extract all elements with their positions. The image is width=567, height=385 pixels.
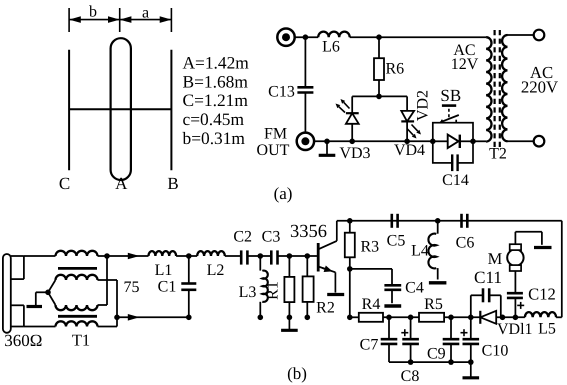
transformer T2 core (495, 30, 500, 148)
label C8 (401, 368, 420, 385)
svg-text:(a): (a) (274, 184, 293, 203)
label C3 (262, 229, 281, 246)
svg-text:12V: 12V (451, 56, 479, 73)
node R3 top (347, 218, 353, 224)
wire R3 node down (349, 269, 351, 317)
svg-text:C3: C3 (262, 229, 281, 246)
label L1 (155, 262, 173, 279)
inductor L1 (149, 251, 177, 256)
wire R4 to R5 (383, 316, 419, 318)
dimension ticks (69, 8, 171, 32)
node C8 top (408, 315, 414, 321)
T1 winding 4 (24, 317, 117, 326)
capacitor C13 (297, 37, 313, 133)
node C11 right (500, 315, 506, 321)
node C9 bottom (448, 359, 454, 365)
node R1 top (287, 253, 293, 259)
svg-text:A: A (115, 174, 128, 193)
ground below emitter (327, 293, 344, 296)
transformer T2 primary (486, 37, 491, 141)
T1 tap to ground (27, 292, 49, 306)
capacitor C5 (392, 214, 398, 228)
transformer T2 secondary (502, 35, 507, 141)
label L4 (411, 243, 429, 260)
wire L6 to T2 top (350, 36, 486, 38)
antenna element B line (170, 50, 172, 170)
label C4 (405, 280, 424, 297)
node L3 bottom (258, 315, 264, 321)
label 360ohm (4, 331, 42, 350)
capacitor C9 (443, 317, 460, 362)
svg-text:a: a (142, 5, 149, 22)
value A=1.42m (183, 53, 250, 73)
svg-text:VD3: VD3 (339, 145, 370, 162)
label C11 (474, 268, 502, 287)
svg-text:R4: R4 (362, 296, 381, 313)
svg-text:R1: R1 (265, 281, 282, 300)
label 3356 (290, 222, 327, 242)
ground near FM OUT (319, 141, 336, 155)
label C2 (233, 229, 252, 246)
wire terminal to L6 (295, 36, 319, 38)
wire T2 sec bottom (508, 140, 534, 142)
capacitor C11 branch (471, 288, 501, 317)
node box right (470, 139, 476, 145)
label SB (440, 86, 461, 105)
svg-text:C=1.21m: C=1.21m (183, 90, 249, 110)
svg-text:b=0.31m: b=0.31m (183, 128, 246, 148)
svg-text:A=1.42m: A=1.42m (183, 53, 250, 73)
svg-text:C13: C13 (268, 84, 295, 101)
FM OUT terminal (297, 133, 314, 150)
T1 right link (116, 280, 118, 317)
label L6 (322, 39, 340, 56)
svg-text:B=1.68m: B=1.68m (183, 71, 249, 91)
svg-text:L4: L4 (411, 243, 429, 260)
label b (89, 4, 97, 21)
svg-text:C8: C8 (401, 368, 420, 385)
antenna element A stadium (111, 38, 131, 180)
label C (59, 174, 70, 193)
label C5 (387, 233, 406, 250)
T1 winding 2 (48, 275, 117, 293)
label AC 220V (521, 63, 558, 97)
svg-text:75: 75 (124, 279, 140, 296)
svg-text:L5: L5 (538, 321, 556, 338)
label a (142, 5, 149, 22)
label R4 (362, 296, 381, 313)
node R3 rail (347, 315, 353, 321)
T1 winding 3 (48, 256, 107, 310)
wire FM OUT to VD3 (314, 140, 353, 142)
svg-text:R5: R5 (424, 296, 443, 313)
svg-text:C9: C9 (427, 346, 446, 363)
label R1 (265, 281, 282, 300)
node ground a (324, 139, 330, 145)
svg-text:L6: L6 (322, 39, 340, 56)
capacitor C14 (452, 154, 457, 171)
svg-text:SB: SB (440, 86, 461, 105)
ground below C4 (384, 304, 401, 307)
capacitor tie line (389, 361, 471, 363)
svg-text:B: B (167, 174, 178, 193)
node C10 top (468, 315, 474, 321)
node L4 top (435, 218, 441, 224)
capacitor C1 (181, 256, 196, 317)
node T1 top out (104, 253, 110, 259)
svg-text:R3: R3 (361, 239, 380, 256)
label T1 (72, 331, 90, 350)
LED VD4 (401, 96, 421, 141)
svg-text:C10: C10 (482, 343, 509, 360)
wire L1 to L2 (176, 255, 197, 257)
capacitor C4 (384, 269, 401, 303)
svg-text:C4: C4 (405, 280, 424, 297)
antenna element C line (68, 50, 70, 170)
node R1 bottom (287, 315, 293, 321)
inductor L2 (197, 251, 225, 256)
capacitor C6 (462, 214, 468, 228)
switch-diode box (433, 123, 473, 163)
label VD2 (415, 90, 432, 121)
label 75 (124, 279, 140, 296)
svg-text:C12: C12 (528, 285, 556, 304)
node C1 bottom (186, 315, 192, 321)
ground above motor (534, 246, 552, 249)
svg-text:(b): (b) (287, 364, 307, 383)
node C1 top (186, 253, 192, 259)
label L3 (239, 284, 257, 301)
wire box left to diode (433, 140, 448, 142)
label R6 (386, 61, 405, 78)
plus C10 (461, 329, 468, 336)
wire C3 to base (278, 255, 319, 257)
inductor L6 (318, 32, 350, 38)
transistor VT 3356 (318, 221, 337, 293)
wire T1 to rail with arrow (117, 314, 189, 321)
right edge wire (561, 221, 563, 317)
LED VD3 (336, 96, 359, 141)
node C9 top (448, 315, 454, 321)
node box left (430, 139, 436, 145)
resistor R6 (374, 58, 384, 80)
node R6 top (376, 34, 382, 40)
resistor R1 (284, 256, 294, 317)
switch SB (440, 106, 459, 123)
dimension line a (120, 16, 172, 23)
AC terminal bottom (534, 136, 545, 147)
resistor R4 (359, 313, 383, 322)
svg-text:C14: C14 (442, 172, 469, 189)
svg-text:L1: L1 (155, 262, 173, 279)
folded dipole 360ohm (3, 254, 24, 333)
svg-text:VD2: VD2 (415, 90, 432, 121)
label OUT (257, 142, 290, 159)
svg-text:C11: C11 (474, 268, 502, 287)
label VD4 (394, 142, 425, 159)
wire R3 to C4 (350, 268, 392, 270)
inductor L4 (428, 221, 437, 280)
svg-text:C1: C1 (158, 279, 177, 296)
capacitor C12 (507, 293, 523, 317)
node R3 bottom (347, 266, 353, 272)
T1 core bar 1 (58, 267, 97, 270)
motor M (507, 244, 523, 271)
wire box to T2 bottom (473, 140, 486, 142)
label T2 (489, 146, 507, 163)
T1 winding 1 (24, 251, 107, 256)
wire T2 sec top (508, 34, 534, 36)
wire R5 to VD1 (444, 316, 480, 318)
svg-text:220V: 220V (521, 78, 558, 97)
plus C8 (401, 329, 408, 336)
diode VD1 (480, 311, 525, 324)
label C13 (268, 84, 295, 101)
inductor L5 (525, 312, 562, 317)
ground below L4 (429, 281, 447, 284)
node T1 center tap (45, 290, 51, 296)
svg-text:R2: R2 (316, 300, 335, 317)
node C12 bottom (513, 315, 519, 321)
label C12 (528, 285, 556, 304)
label L5 (538, 321, 556, 338)
node R2 top (305, 253, 311, 259)
capacitor C2 (241, 250, 247, 264)
capacitor C7 (381, 317, 398, 362)
label R3 (361, 239, 380, 256)
value B=1.68m (183, 71, 249, 91)
AC terminal top (534, 30, 545, 41)
label AC 12V (451, 42, 479, 73)
node C10 bottom (468, 359, 474, 365)
svg-text:b: b (89, 4, 97, 21)
svg-text:3356: 3356 (290, 222, 327, 242)
svg-text:C5: C5 (387, 233, 406, 250)
svg-text:M: M (488, 249, 503, 268)
resistor R3 (345, 221, 355, 269)
svg-text:C2: C2 (233, 229, 252, 246)
label C7 (360, 337, 379, 354)
label B (167, 174, 178, 193)
label C9 (427, 346, 446, 363)
dimension line b (69, 16, 120, 23)
collector rail (337, 220, 562, 222)
node L3 top (258, 253, 264, 259)
label C14 (442, 172, 469, 189)
svg-text:C7: C7 (360, 337, 379, 354)
capacitor C10 (463, 317, 480, 362)
svg-text:OUT: OUT (257, 142, 290, 159)
svg-text:C: C (59, 174, 70, 193)
wire R6 top (378, 37, 380, 58)
svg-text:C6: C6 (456, 235, 475, 252)
wire L2 to C2 (225, 255, 241, 257)
bottom rail a (352, 140, 433, 142)
wire rail R3node to R4 (350, 316, 359, 318)
label (b) (287, 364, 307, 383)
label VD3 (339, 145, 370, 162)
label (a) (274, 184, 293, 203)
svg-text:360Ω: 360Ω (4, 331, 42, 350)
node C13 top (303, 34, 309, 40)
ground below C10 (463, 362, 480, 378)
antenna input terminal (277, 29, 294, 46)
label VD1 (497, 321, 533, 338)
diode VD inside box (448, 135, 460, 148)
label FM (264, 126, 287, 143)
wire diode to box right (460, 140, 473, 142)
node R2 bottom (305, 315, 311, 321)
value b=0.31m (183, 128, 246, 148)
svg-text:VD4: VD4 (394, 142, 425, 159)
label R2 (316, 300, 335, 317)
node VD3 bottom (349, 139, 355, 145)
svg-text:L3: L3 (239, 284, 257, 301)
label A (115, 174, 128, 193)
capacitor C3 (271, 250, 277, 264)
node C8 bottom (408, 359, 414, 365)
resistor R5 (419, 313, 444, 322)
ground below R1 (281, 317, 298, 330)
label L2 (207, 262, 225, 279)
svg-text:VDl1: VDl1 (497, 321, 533, 338)
plus C12 (517, 302, 524, 309)
LED link wire (352, 95, 407, 97)
node VD4 bottom (404, 139, 410, 145)
node link R6 (376, 94, 382, 100)
inductor L3 (260, 256, 268, 317)
capacitor C8 (402, 317, 419, 362)
label C10 (482, 343, 509, 360)
value C=1.21m (183, 90, 249, 110)
label M (488, 249, 503, 268)
svg-text:T1: T1 (72, 331, 90, 350)
node T1 bottom out (114, 315, 120, 321)
svg-text:c=0.45m: c=0.45m (183, 109, 245, 129)
wire T1 to L1 with arrow (107, 253, 149, 260)
antenna boom crossbar (69, 108, 171, 110)
motor top wire (515, 232, 542, 245)
svg-text:R6: R6 (386, 61, 405, 78)
wire C2 to C3 (247, 255, 271, 257)
svg-text:FM: FM (264, 126, 287, 143)
motor bottom wire (514, 271, 516, 293)
label R5 (424, 296, 443, 313)
svg-text:T2: T2 (489, 146, 507, 163)
T1 core bar 2 (58, 315, 97, 318)
label C1 (158, 279, 177, 296)
value c=0.45m (183, 109, 245, 129)
node C7 top (386, 315, 392, 321)
label C6 (456, 235, 475, 252)
resistor R2 (303, 256, 314, 317)
wire R6 bottom (378, 80, 380, 96)
svg-text:L2: L2 (207, 262, 225, 279)
